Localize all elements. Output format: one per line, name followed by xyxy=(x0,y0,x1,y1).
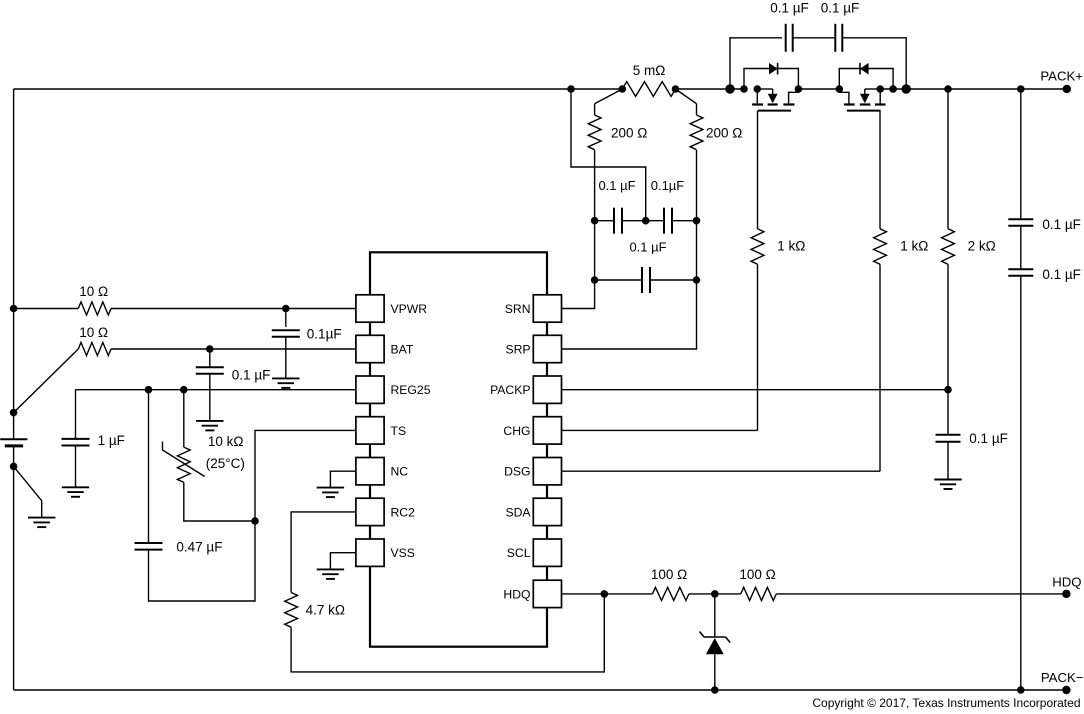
wire bottom rail xyxy=(14,689,1067,691)
wire C10 to REG25 xyxy=(148,390,150,543)
wire rail FET2 to PACK+ xyxy=(880,88,1067,90)
label R2 10 &#937; xyxy=(79,325,108,340)
capacitor C3 0.1 uF xyxy=(642,267,650,293)
svg-text:100 Ω: 100 Ω xyxy=(739,567,775,582)
wire R4 to cap row xyxy=(696,150,698,221)
wire Q1 gate lead xyxy=(757,111,759,229)
wire row1-row2 right xyxy=(696,221,698,280)
label C5 0.1 uF xyxy=(1042,217,1081,232)
svg-text:PACKP: PACKP xyxy=(490,383,530,397)
svg-text:CHG: CHG xyxy=(503,424,530,438)
node HDQ junction 1 xyxy=(601,590,609,598)
wire R3 to cap row xyxy=(594,150,596,221)
label pin VPWR xyxy=(391,302,428,316)
capacitor C_g1 0.1 uF xyxy=(786,24,793,52)
wire TS junction down xyxy=(149,521,256,601)
node battery + tap xyxy=(10,409,18,417)
wire cap row1 mid2 xyxy=(646,220,664,222)
wire cap loop middle xyxy=(793,37,836,39)
label PACK+ xyxy=(1040,69,1083,84)
svg-text:0.47 µF: 0.47 µF xyxy=(176,539,222,554)
wire C6 to bottom rail xyxy=(1020,276,1022,690)
pin REG25 xyxy=(356,376,384,403)
label pin SDA xyxy=(505,505,531,519)
label RT1 10 k&#937; xyxy=(208,434,244,449)
transistor Q2 gate plate xyxy=(847,110,881,112)
transistor Q2 channel bars xyxy=(844,103,885,105)
wire left rail upper xyxy=(13,89,15,439)
wire Q2 gate lead xyxy=(879,111,881,229)
label pin HDQ xyxy=(503,587,530,601)
svg-text:0.1µF: 0.1µF xyxy=(307,327,342,342)
resistor R1 10 &#937; xyxy=(78,302,111,315)
resistor R5 1 k&#937; xyxy=(751,229,764,264)
svg-text:Copyright © 2017, Texas Instru: Copyright © 2017, Texas Instruments Inco… xyxy=(812,696,1080,710)
resistor R8 4.7 k&#937; xyxy=(285,593,298,628)
wire VPWR left xyxy=(14,308,79,310)
wire R5 to CHG xyxy=(757,264,759,430)
pin RC2 xyxy=(356,498,384,525)
capacitor C1 0.1 uF xyxy=(614,208,622,234)
svg-text:HDQ: HDQ xyxy=(503,587,530,601)
svg-text:VSS: VSS xyxy=(391,546,415,560)
svg-text:RC2: RC2 xyxy=(391,505,416,519)
label C10 0.47 uF xyxy=(176,539,222,554)
label pin NC xyxy=(391,465,409,479)
wire BAT cap lead xyxy=(209,349,211,367)
wire PACKP cap lead xyxy=(947,390,949,435)
label pin VSS xyxy=(391,546,415,560)
transistor Q1 body diode xyxy=(769,63,778,75)
wire zener top lead xyxy=(714,594,716,637)
svg-text:1 kΩ: 1 kΩ xyxy=(777,239,805,254)
ground C4 xyxy=(934,480,961,490)
pin NC xyxy=(356,458,384,485)
resistor R6 1 k&#937; xyxy=(874,229,887,264)
transistor Q1 drain bend xyxy=(789,89,799,105)
pin TS xyxy=(356,417,384,444)
svg-text:0.1 µF: 0.1 µF xyxy=(232,367,271,382)
node PACK+ terminal xyxy=(1063,85,1071,93)
pin HDQ xyxy=(533,580,561,607)
label R5 1 k&#937; xyxy=(777,239,805,254)
resistor R_sense 5 m&#937; xyxy=(622,82,675,97)
capacitor C4 0.1 uF xyxy=(936,435,961,442)
wire SRP pin xyxy=(562,280,697,349)
node REG25 thermistor tap xyxy=(180,386,188,394)
label C3 0.1 uF xyxy=(629,240,666,255)
wire zener bottom lead xyxy=(714,654,716,690)
node HDQ zener junction xyxy=(711,590,719,598)
resistor R3 200 &#937; xyxy=(588,104,601,150)
svg-text:SCL: SCL xyxy=(507,546,531,560)
wire row1-row2 left xyxy=(594,221,596,280)
wire rail to C5 xyxy=(1020,89,1022,219)
label C9 1 uF xyxy=(98,433,125,448)
wire rail 5mohm to FET1 xyxy=(676,88,745,90)
label C_g2 0.1 uF xyxy=(821,0,860,15)
capacitor C10 0.47 uF xyxy=(135,543,163,550)
wire C9 to ground xyxy=(75,446,77,488)
op-amp U1 bq26100 body xyxy=(370,252,547,646)
node Q2 diode right xyxy=(889,85,897,93)
svg-text:(25°C): (25°C) xyxy=(206,456,245,471)
resistor R4 200 &#937; xyxy=(690,104,703,150)
resistor R7 2 k&#937; xyxy=(942,229,955,264)
svg-text:0.1 µF: 0.1 µF xyxy=(770,0,809,15)
node cap loop right xyxy=(902,84,911,93)
pin CHG xyxy=(533,417,561,444)
wire C8 to ground xyxy=(209,374,211,421)
svg-text:0.1 µF: 0.1 µF xyxy=(629,240,666,255)
diode D1 zener xyxy=(700,632,731,655)
wire TS pin xyxy=(255,430,356,521)
svg-text:200 Ω: 200 Ω xyxy=(611,126,647,141)
capacitor C6 0.1 uF xyxy=(1008,269,1033,276)
svg-text:VPWR: VPWR xyxy=(391,302,428,316)
svg-text:1 kΩ: 1 kΩ xyxy=(900,239,928,254)
svg-text:200 Ω: 200 Ω xyxy=(706,126,742,141)
wire HDQ pin xyxy=(562,593,653,595)
wire battery ground diagonal xyxy=(14,466,42,517)
wire PACKP pin xyxy=(562,389,949,391)
wire BAT right xyxy=(111,348,356,350)
transistor Q1 channel bars xyxy=(752,103,795,105)
svg-text:BAT: BAT xyxy=(391,342,414,356)
ground C7 xyxy=(272,378,299,388)
thermistor RT1 strike xyxy=(163,442,205,477)
label C6 0.1 uF xyxy=(1042,267,1081,282)
wire C7 to ground xyxy=(285,337,287,379)
wire R6 to DSG xyxy=(879,264,881,471)
node PACK- terminal xyxy=(1062,686,1070,694)
wire RC2 pin xyxy=(291,512,356,593)
wire R7 to PACKP xyxy=(947,264,949,390)
svg-text:SRN: SRN xyxy=(505,302,531,316)
svg-text:0.1 µF: 0.1 µF xyxy=(1042,267,1081,282)
label pin REG25 xyxy=(391,383,431,397)
node cap row1 right xyxy=(693,217,701,225)
ground C8 xyxy=(196,421,223,431)
ground VSS xyxy=(317,569,344,579)
capacitor C9 1 uF xyxy=(62,439,90,446)
svg-text:0.1 µF: 0.1 µF xyxy=(821,0,860,15)
capacitor C7 0.1 uF xyxy=(272,330,300,337)
battery BT1 xyxy=(0,439,27,446)
svg-text:4.7 kΩ: 4.7 kΩ xyxy=(306,603,345,618)
node sense tap (571,89) xyxy=(567,85,575,93)
ground battery xyxy=(28,518,55,528)
label R7 2 k&#937; xyxy=(968,239,996,254)
thermistor RT1 10 k&#937; xyxy=(177,447,190,482)
svg-text:10 kΩ: 10 kΩ xyxy=(208,434,244,449)
transistor Q2 drain bend xyxy=(839,89,849,105)
pin BAT xyxy=(356,335,384,362)
capacitor C2 0.1 uF xyxy=(664,208,672,234)
node cap row1 left xyxy=(591,217,599,225)
label C8 0.1 uF xyxy=(232,367,271,382)
pin VSS xyxy=(356,539,384,566)
node C6 bottom xyxy=(1017,686,1025,694)
wire thermistor bottom xyxy=(184,482,255,521)
svg-text:DSG: DSG xyxy=(504,465,530,479)
node Q1 source xyxy=(754,85,762,93)
wire thermistor lead xyxy=(183,390,185,447)
label PACK- terminal xyxy=(1041,670,1084,685)
node Q1 drain xyxy=(795,85,803,93)
label R4 200 &#937; xyxy=(706,126,742,141)
node cap row2 left xyxy=(591,276,599,284)
node battery - tap xyxy=(10,463,18,471)
ground C9 xyxy=(62,487,89,497)
transistor Q1 body diode loop xyxy=(744,69,798,90)
svg-text:0.1 µF: 0.1 µF xyxy=(598,178,635,193)
resistor R9 100 &#937; xyxy=(652,587,689,600)
label C2 0.1 uF xyxy=(651,178,685,193)
label pin PACKP xyxy=(490,383,530,397)
pin SRN xyxy=(533,295,561,322)
svg-text:SDA: SDA xyxy=(505,505,531,519)
pin SDA xyxy=(533,498,561,525)
label R1 10 &#937; xyxy=(79,284,108,299)
wire NC stub xyxy=(330,471,356,487)
wire cap row2 left xyxy=(595,279,642,281)
node zener bottom xyxy=(711,686,719,694)
node TS junction xyxy=(251,517,259,525)
resistor R10 100 &#937; xyxy=(741,587,777,600)
wire cap loop left riser xyxy=(730,38,782,89)
label pin RC2 xyxy=(391,505,416,519)
svg-text:2 kΩ: 2 kΩ xyxy=(968,239,996,254)
wire C9 lead xyxy=(75,390,77,439)
label RT1 (25 C) xyxy=(206,456,245,471)
pin SCL xyxy=(533,539,561,566)
svg-text:0.1µF: 0.1µF xyxy=(651,178,685,193)
node REG25-RC tap xyxy=(145,386,153,394)
label C7 0.1 uF xyxy=(307,327,342,342)
wire SRN tap riser xyxy=(571,89,646,221)
svg-text:TS: TS xyxy=(391,424,407,438)
svg-text:REG25: REG25 xyxy=(391,383,431,397)
wire cap row1 right xyxy=(672,220,697,222)
node VPWR cap tap xyxy=(282,305,290,313)
wire REG25 xyxy=(76,389,356,391)
node VPWR rail tap xyxy=(10,305,18,313)
wire HDQ mid xyxy=(689,593,741,595)
label pin SRP xyxy=(505,342,530,356)
label R8 4.7 k&#937; xyxy=(306,603,345,618)
svg-text:5 mΩ: 5 mΩ xyxy=(633,63,666,78)
label R3 200 &#937; xyxy=(611,126,647,141)
wire VPWR cap lead xyxy=(285,309,287,327)
node BAT cap tap xyxy=(206,345,214,353)
node Q2 source xyxy=(876,85,884,93)
node 5mohm left xyxy=(619,85,627,93)
node cap loop left xyxy=(725,84,734,93)
node cap row1 mid xyxy=(642,217,650,225)
resistor R2 10 &#937; xyxy=(78,342,111,355)
capacitor C8 0.1 uF xyxy=(196,367,224,374)
wire 200ohm right diagonal xyxy=(676,89,697,104)
ground NC xyxy=(317,488,344,498)
pin SRP xyxy=(533,335,561,362)
label pin CHG xyxy=(503,424,530,438)
label pin BAT xyxy=(391,342,414,356)
node rail C5 xyxy=(1017,85,1025,93)
wire rail to R7 xyxy=(947,89,949,229)
label pin SRN xyxy=(505,302,531,316)
wire DSG pin xyxy=(562,470,881,472)
wire HDQ right xyxy=(776,593,1066,595)
label R10 100 &#937; xyxy=(739,567,775,582)
wire cap loop right riser xyxy=(842,38,906,89)
svg-text:10 Ω: 10 Ω xyxy=(79,325,108,340)
node Q1 diode left xyxy=(740,85,748,93)
svg-text:0.1 µF: 0.1 µF xyxy=(1042,217,1081,232)
transistor Q2 source contact xyxy=(879,89,881,105)
label 5 m&#937; xyxy=(633,63,666,78)
wire R8 to HDQ xyxy=(291,594,604,672)
label R9 100 &#937; xyxy=(651,567,687,582)
svg-text:1 µF: 1 µF xyxy=(98,433,125,448)
svg-text:NC: NC xyxy=(391,465,409,479)
wire VPWR right xyxy=(111,308,356,310)
label pin DSG xyxy=(504,465,530,479)
wire cap row1 left xyxy=(595,220,614,222)
label pin SCL xyxy=(507,546,531,560)
transistor Q2 body diode loop xyxy=(839,69,893,90)
label C1 0.1 uF xyxy=(598,178,635,193)
capacitor C_g2 0.1 uF xyxy=(835,24,842,52)
wire 200ohm left diagonal xyxy=(595,89,623,104)
wire CHG pin xyxy=(562,429,758,431)
node Q2 diode left xyxy=(836,85,844,93)
label pin TS xyxy=(391,424,407,438)
node rail R7 xyxy=(944,85,952,93)
pin PACKP xyxy=(533,376,561,403)
label copyright xyxy=(812,696,1080,710)
svg-text:SRP: SRP xyxy=(505,342,530,356)
wire left rail lower xyxy=(13,446,15,690)
capacitor C5 0.1 uF xyxy=(1008,219,1033,226)
wire top rail left segment xyxy=(14,88,623,90)
node 5mohm right xyxy=(672,85,680,93)
label HDQ terminal xyxy=(1052,574,1081,589)
wire cap row1 mid xyxy=(622,220,646,222)
wire SRN pin xyxy=(562,280,595,309)
wire VSS stub xyxy=(330,553,356,570)
svg-text:10 Ω: 10 Ω xyxy=(79,284,108,299)
wire C4 to ground xyxy=(947,442,949,480)
label C4 0.1 uF xyxy=(969,431,1008,446)
transistor Q1 body arrow xyxy=(757,89,777,103)
transistor Q1 gate plate xyxy=(758,110,791,112)
svg-text:0.1 µF: 0.1 µF xyxy=(969,431,1008,446)
wire rail FET1 drain to FET2 drain xyxy=(798,88,839,90)
wire cap row2 right xyxy=(650,279,697,281)
transistor Q1 source contact xyxy=(756,89,758,105)
svg-text:PACK−: PACK− xyxy=(1041,670,1084,685)
transistor Q2 body diode xyxy=(860,63,869,75)
node PACKP junction xyxy=(944,386,952,394)
transistor Q2 body arrow xyxy=(860,89,880,103)
svg-text:HDQ: HDQ xyxy=(1052,574,1081,589)
wire C5 to C6 xyxy=(1020,226,1022,269)
wire BAT diagonal xyxy=(14,349,79,413)
label C_g1 0.1 uF xyxy=(770,0,809,15)
node HDQ terminal xyxy=(1062,590,1070,598)
svg-text:PACK+: PACK+ xyxy=(1040,69,1083,84)
pin DSG xyxy=(533,458,561,485)
node cap row2 right xyxy=(693,276,701,284)
pin VPWR xyxy=(356,295,384,322)
label R6 1 k&#937; xyxy=(900,239,928,254)
svg-text:100 Ω: 100 Ω xyxy=(651,567,687,582)
